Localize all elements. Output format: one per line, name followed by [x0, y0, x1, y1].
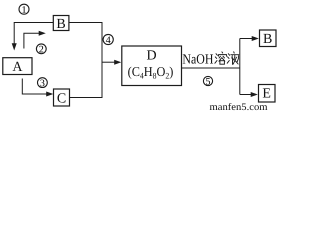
svg-text:E: E [262, 87, 271, 102]
arrowhead right into C [46, 92, 53, 97]
wire branch to B-right [240, 38, 252, 40]
wire step 3 from A down-right to C [22, 79, 47, 95]
circled 5 [203, 76, 212, 85]
wire B-left to down-arrow (step 1) [14, 23, 53, 44]
wire step 2 up-right arrow [24, 33, 39, 48]
wire arrow into D (step 4) [102, 61, 115, 63]
box D [122, 46, 182, 86]
svg-text:B: B [56, 17, 65, 32]
svg-text:B: B [263, 32, 272, 47]
hanzi rong (溶) [215, 52, 227, 64]
arrowhead right into D [114, 60, 121, 65]
svg-text:D: D [147, 49, 157, 64]
wire branch to E [240, 94, 251, 96]
arrowhead right into E [251, 92, 258, 97]
wire B-right down to C-right [69, 23, 102, 98]
box B top [53, 16, 69, 31]
hanzi ye (液) [227, 52, 239, 65]
svg-text:C: C [57, 91, 66, 106]
box A [3, 58, 32, 75]
circled 2 [36, 44, 46, 54]
circled 1 [19, 4, 29, 14]
arrowhead right step 2 [39, 31, 46, 36]
box B right [260, 30, 277, 47]
wire branch vertical [239, 39, 241, 95]
svg-text:manfen5.com: manfen5.com [210, 102, 268, 111]
box C [54, 89, 70, 106]
svg-text:A: A [12, 60, 23, 75]
arrowhead right into B-right [252, 36, 259, 41]
circled 3 [38, 78, 48, 88]
box E [259, 85, 276, 103]
svg-text:NaOH: NaOH [182, 53, 213, 68]
circled 4 [103, 34, 113, 44]
wire D-right to branch [182, 67, 240, 69]
arrowhead down into A [12, 43, 17, 50]
